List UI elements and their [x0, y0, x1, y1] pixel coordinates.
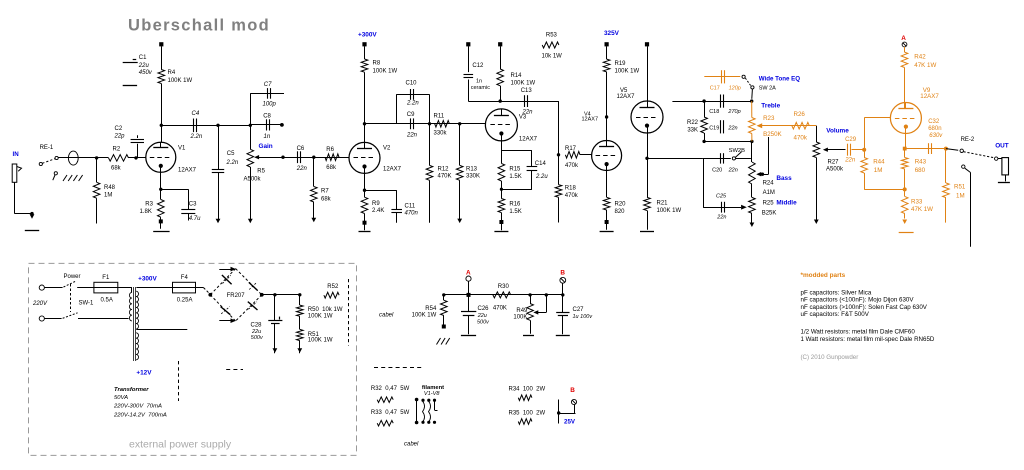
svg-text:R30: R30: [498, 284, 510, 290]
svg-text:12AX7: 12AX7: [920, 93, 939, 100]
svg-text:22n: 22n: [728, 167, 738, 173]
svg-text:F4: F4: [181, 275, 189, 281]
svg-text:33K: 33K: [687, 128, 698, 134]
svg-text:4.7u: 4.7u: [189, 216, 201, 222]
svg-text:R25: R25: [763, 201, 775, 207]
svg-text:R18: R18: [565, 186, 577, 192]
svg-text:470n: 470n: [405, 211, 419, 217]
svg-text:1.8K: 1.8K: [140, 209, 152, 215]
svg-text:2.2n: 2.2n: [226, 160, 239, 166]
svg-text:V3: V3: [519, 114, 527, 120]
svg-text:100K 1W: 100K 1W: [412, 312, 437, 318]
svg-text:IN: IN: [13, 151, 20, 158]
svg-text:C6: C6: [297, 146, 305, 152]
svg-text:R24: R24: [763, 181, 775, 187]
svg-text:C25: C25: [716, 193, 727, 199]
svg-text:C18: C18: [709, 109, 719, 115]
svg-text:1.5K: 1.5K: [509, 209, 521, 215]
svg-text:C3: C3: [189, 201, 197, 207]
svg-text:R14: R14: [511, 73, 523, 79]
svg-text:R20: R20: [615, 201, 627, 207]
svg-text:R48: R48: [104, 185, 116, 191]
svg-text:2.2u: 2.2u: [535, 174, 548, 180]
svg-text:R2: R2: [113, 146, 121, 152]
svg-text:cabel: cabel: [379, 313, 394, 319]
svg-text:470k: 470k: [565, 193, 579, 199]
svg-text:SW2B: SW2B: [729, 148, 746, 154]
svg-text:C26: C26: [478, 306, 490, 312]
svg-text:R54: R54: [425, 306, 437, 312]
svg-text:2.2n: 2.2n: [190, 134, 203, 140]
svg-text:50VA: 50VA: [114, 395, 128, 401]
svg-text:C2: C2: [115, 126, 123, 132]
svg-text:R9: R9: [372, 201, 380, 207]
svg-text:R3: R3: [145, 202, 153, 208]
svg-text:C7: C7: [264, 82, 272, 88]
svg-text:C32: C32: [928, 119, 940, 125]
svg-text:100K 1W: 100K 1W: [615, 68, 640, 74]
svg-text:680: 680: [915, 167, 926, 174]
svg-text:22n: 22n: [296, 166, 308, 172]
svg-text:R23: R23: [763, 115, 775, 122]
svg-text:C17: C17: [710, 86, 720, 92]
svg-text:22n: 22n: [844, 157, 856, 163]
svg-text:R33 0,47 5W: R33 0,47 5W: [371, 410, 410, 416]
svg-text:25V: 25V: [564, 419, 576, 426]
svg-text:120p: 120p: [729, 86, 741, 92]
svg-text:C12: C12: [472, 63, 484, 69]
svg-text:R50 10k 1W: R50 10k 1W: [308, 307, 343, 313]
svg-text:220V-14.2V 700mA: 220V-14.2V 700mA: [113, 413, 167, 419]
svg-text:pF capacitors: Silver Mica: pF capacitors: Silver Mica: [801, 290, 872, 297]
svg-text:0.5A: 0.5A: [101, 297, 113, 303]
svg-text:R16: R16: [509, 202, 521, 208]
svg-text:Bass: Bass: [776, 175, 792, 182]
svg-text:R49: R49: [516, 308, 528, 314]
svg-text:22n: 22n: [406, 132, 418, 138]
svg-text:330K: 330K: [466, 174, 480, 180]
svg-text:22u: 22u: [477, 313, 487, 319]
svg-text:A500k: A500k: [244, 176, 262, 182]
svg-text:+300V: +300V: [358, 31, 377, 38]
svg-text:C5: C5: [227, 151, 235, 157]
svg-text:R43: R43: [915, 159, 927, 166]
svg-text:R35 100 2W: R35 100 2W: [509, 410, 546, 416]
svg-text:SW-1: SW-1: [79, 300, 95, 306]
svg-text:nF capacitors (<100nF): Mojo D: nF capacitors (<100nF): Mojo Dijon 630V: [801, 297, 915, 304]
svg-text:Transformer: Transformer: [114, 387, 149, 393]
svg-text:R51: R51: [954, 183, 966, 190]
svg-text:A: A: [901, 35, 906, 42]
svg-text:22u: 22u: [138, 63, 150, 69]
svg-text:R4: R4: [168, 70, 176, 76]
svg-text:22u: 22u: [251, 329, 261, 335]
svg-text:R6: R6: [326, 147, 334, 153]
svg-text:1M: 1M: [104, 193, 112, 199]
svg-text:R42: R42: [914, 53, 926, 60]
svg-text:F1: F1: [102, 275, 110, 281]
svg-text:12AX7: 12AX7: [617, 94, 636, 100]
svg-text:1M: 1M: [874, 167, 883, 174]
svg-text:220V: 220V: [32, 301, 48, 307]
svg-text:R11: R11: [434, 114, 445, 120]
svg-text:R7: R7: [321, 189, 329, 195]
svg-text:C19: C19: [709, 125, 719, 131]
svg-text:C9: C9: [407, 112, 415, 118]
svg-text:Uberschall mod: Uberschall mod: [128, 17, 270, 35]
svg-text:68k: 68k: [326, 165, 337, 171]
svg-text:B: B: [570, 387, 575, 394]
svg-text:12AX7: 12AX7: [582, 117, 599, 123]
svg-text:0.25A: 0.25A: [177, 297, 193, 303]
svg-text:R5: R5: [257, 168, 265, 174]
svg-text:470K: 470K: [493, 305, 507, 311]
svg-text:B25K: B25K: [762, 211, 777, 217]
svg-text:V5: V5: [620, 88, 628, 94]
svg-text:cabel: cabel: [404, 442, 419, 448]
svg-text:470K: 470K: [438, 174, 452, 180]
svg-text:10k 1W: 10k 1W: [542, 54, 563, 60]
svg-text:Wide Tone EQ: Wide Tone EQ: [759, 76, 801, 83]
svg-text:1n: 1n: [476, 78, 482, 84]
svg-text:R21: R21: [657, 200, 669, 206]
svg-text:100K 1W: 100K 1W: [308, 313, 333, 319]
svg-text:470k: 470k: [565, 163, 579, 169]
svg-text:100K 1W: 100K 1W: [308, 338, 333, 344]
svg-text:2.2n: 2.2n: [406, 101, 419, 107]
svg-text:12AX7: 12AX7: [383, 166, 402, 172]
svg-text:100K 1W: 100K 1W: [511, 81, 536, 87]
svg-text:R44: R44: [873, 158, 885, 165]
svg-text:68k: 68k: [321, 197, 332, 203]
svg-text:R12: R12: [438, 167, 450, 173]
svg-text:C11: C11: [405, 204, 416, 210]
svg-text:100p: 100p: [263, 102, 277, 108]
svg-text:820: 820: [615, 209, 626, 215]
svg-text:B: B: [560, 270, 565, 277]
svg-text:FR207: FR207: [227, 293, 246, 299]
svg-text:C20: C20: [712, 167, 722, 173]
svg-text:22n: 22n: [716, 214, 726, 220]
svg-text:220V-300V 70mA: 220V-300V 70mA: [113, 404, 162, 410]
svg-text:R22: R22: [687, 120, 699, 126]
svg-text:450v: 450v: [139, 70, 153, 76]
svg-text:100K: 100K: [513, 314, 527, 320]
svg-text:330k: 330k: [434, 131, 448, 137]
svg-text:100K 1W: 100K 1W: [168, 78, 193, 84]
svg-text:OUT: OUT: [995, 142, 1009, 149]
svg-text:100K 1W: 100K 1W: [657, 208, 682, 214]
svg-text:47K 1W: 47K 1W: [914, 62, 936, 69]
svg-text:+300V: +300V: [138, 275, 157, 282]
svg-text:Volume: Volume: [826, 127, 849, 134]
svg-text:uF capacitors: F&T 500V: uF capacitors: F&T 500V: [801, 311, 870, 318]
svg-text:1/2 Watt resistors: metal film: 1/2 Watt resistors: metal film Dale CMF6…: [801, 329, 916, 336]
svg-text:R17: R17: [565, 146, 577, 152]
svg-text:Gain: Gain: [259, 143, 273, 150]
svg-text:500v: 500v: [477, 319, 490, 325]
svg-text:C29: C29: [845, 137, 857, 143]
svg-text:*modded parts: *modded parts: [801, 272, 846, 279]
svg-text:C4: C4: [192, 111, 200, 117]
svg-text:325V: 325V: [604, 30, 620, 37]
svg-text:R52: R52: [327, 284, 339, 290]
svg-text:12AX7: 12AX7: [178, 168, 197, 174]
svg-text:SW 2A: SW 2A: [759, 85, 776, 91]
svg-text:external power supply: external power supply: [129, 439, 232, 451]
svg-text:12AX7: 12AX7: [519, 137, 538, 143]
svg-text:22p: 22p: [114, 133, 126, 139]
svg-text:V2: V2: [383, 145, 391, 151]
svg-text:1u 100v: 1u 100v: [573, 314, 594, 320]
svg-text:R53: R53: [546, 32, 558, 38]
svg-text:RE-2: RE-2: [961, 137, 975, 143]
svg-text:R19: R19: [615, 61, 627, 67]
svg-text:A500k: A500k: [826, 166, 844, 172]
svg-text:470k: 470k: [794, 134, 808, 141]
svg-text:R27: R27: [828, 159, 840, 165]
svg-text:47K 1W: 47K 1W: [911, 206, 933, 213]
svg-text:270p: 270p: [727, 109, 740, 115]
svg-text:B250K: B250K: [763, 131, 782, 138]
svg-text:1M: 1M: [956, 193, 965, 200]
svg-text:2.4K: 2.4K: [372, 208, 384, 214]
svg-text:Middle: Middle: [776, 200, 797, 207]
svg-text:C13: C13: [521, 88, 533, 94]
svg-text:R26: R26: [794, 111, 806, 118]
svg-text:500v: 500v: [251, 335, 264, 341]
svg-text:R32 0,47 5W: R32 0,47 5W: [371, 386, 410, 392]
svg-text:Power: Power: [64, 274, 81, 280]
svg-text:A1M: A1M: [763, 190, 775, 196]
svg-text:C14: C14: [535, 161, 547, 167]
svg-text:C10: C10: [406, 81, 418, 87]
svg-text:680n: 680n: [928, 126, 941, 132]
svg-text:V1: V1: [178, 146, 186, 152]
svg-text:1 Watt resistors: metal film m: 1 Watt resistors: metal film mil-spec Da…: [801, 336, 935, 343]
svg-text:nF capacitors (>100nF): Solen: nF capacitors (>100nF): Solen Fast Cap 6…: [801, 304, 928, 311]
svg-text:ceramic: ceramic: [471, 85, 491, 91]
svg-text:630v: 630v: [929, 133, 943, 139]
svg-text:R13: R13: [466, 167, 478, 173]
svg-text:Treble: Treble: [761, 103, 780, 110]
svg-text:C8: C8: [263, 114, 271, 120]
svg-text:R8: R8: [373, 60, 381, 66]
svg-text:100K 1W: 100K 1W: [373, 68, 398, 74]
svg-text:1.5K: 1.5K: [509, 174, 521, 180]
svg-text:RE-1: RE-1: [40, 145, 54, 151]
svg-text:C27: C27: [573, 307, 585, 313]
svg-text:C1: C1: [139, 55, 147, 61]
svg-text:R33: R33: [911, 199, 923, 206]
svg-text:(C) 2010 Gunpowder: (C) 2010 Gunpowder: [801, 354, 859, 361]
svg-text:1n: 1n: [264, 134, 271, 140]
svg-text:C28: C28: [251, 322, 263, 328]
svg-text:68k: 68k: [111, 165, 122, 171]
svg-text:A: A: [466, 270, 471, 277]
svg-text:R15: R15: [509, 166, 521, 172]
svg-text:22n: 22n: [727, 125, 737, 131]
svg-text:V1-V8: V1-V8: [424, 391, 440, 397]
svg-text:+12V: +12V: [136, 370, 152, 377]
svg-text:R34 100 2W: R34 100 2W: [509, 386, 546, 392]
